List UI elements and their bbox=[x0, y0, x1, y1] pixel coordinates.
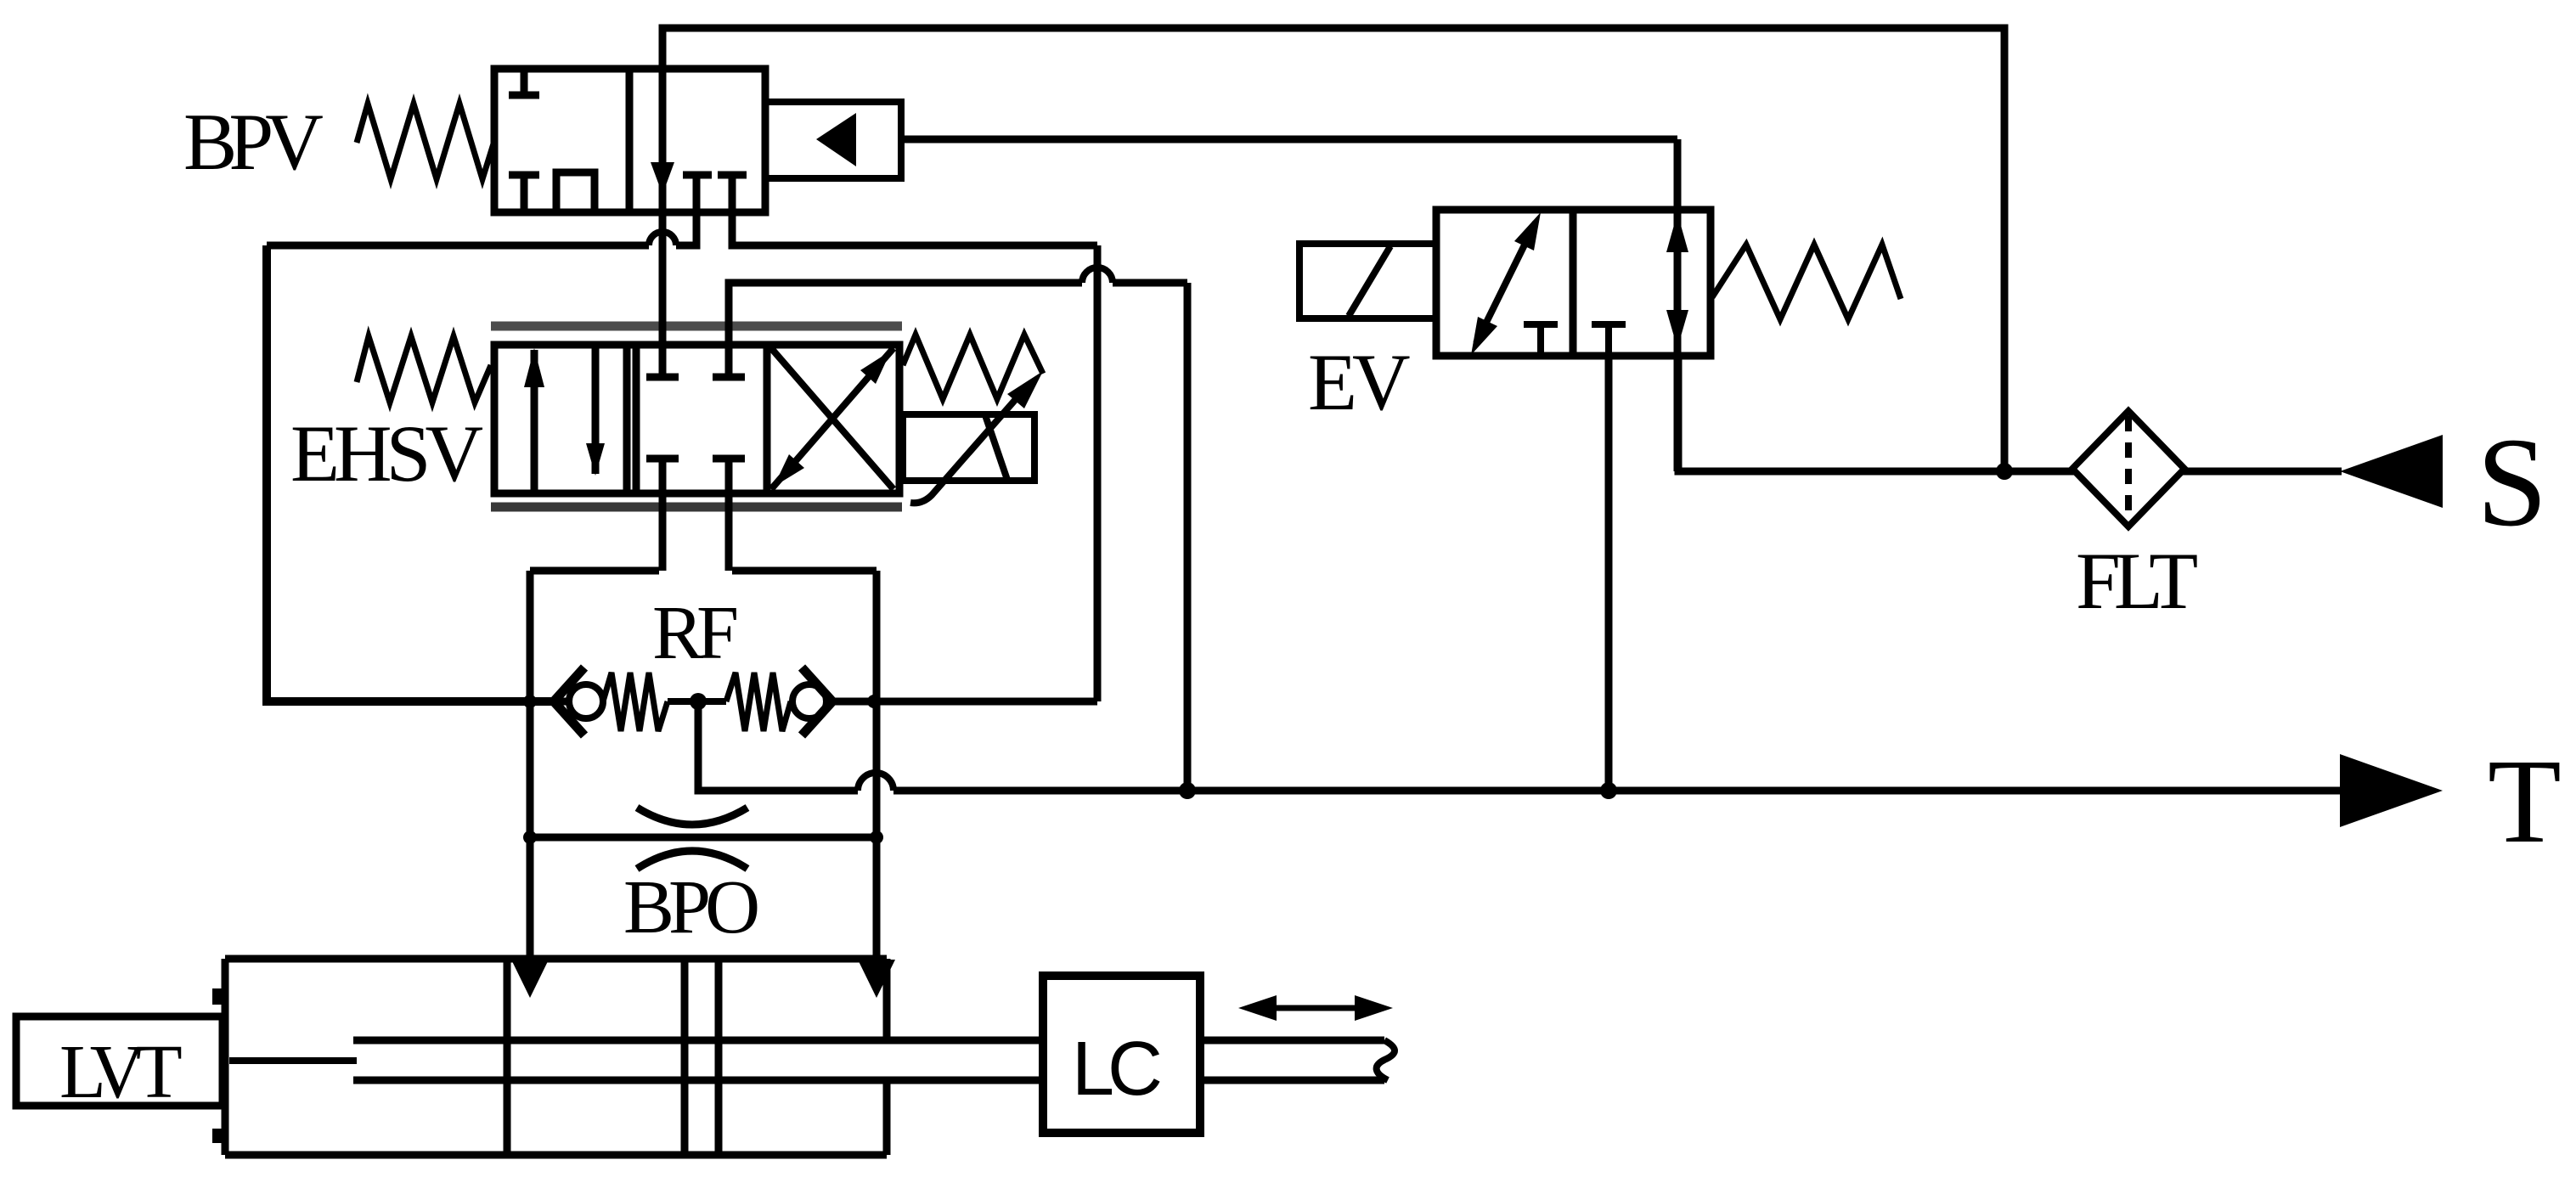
BPV right square flow line with down arrow bbox=[659, 69, 667, 212]
svg-text:BPO: BPO bbox=[623, 865, 758, 949]
EV right square vertical double-arrow heads bbox=[1666, 213, 1688, 252]
wire: EHSV bottom ports into RF block bbox=[662, 459, 729, 571]
svg-text:EHSV: EHSV bbox=[290, 408, 482, 498]
valve EV solenoid box bbox=[1299, 244, 1436, 318]
EHSV top rail bbox=[491, 322, 902, 331]
BPV spring bbox=[357, 104, 494, 179]
node: restrictor-right edge dot bbox=[867, 695, 881, 708]
wire: restrictor line out to right vertical bbox=[832, 698, 1097, 706]
wire: tank line from RF center to T port (hop over RF box edge) bbox=[698, 701, 858, 791]
sensor LVT box bbox=[16, 1016, 223, 1106]
EV left square diagonal double-arrow bbox=[1476, 222, 1536, 343]
port T triangle bbox=[2340, 754, 2443, 827]
node: restrictor-left edge dot bbox=[523, 695, 537, 708]
EHSV bottom rail bbox=[491, 503, 902, 512]
BPV left square blocked port bottom bbox=[509, 175, 539, 212]
RF left check valve bbox=[554, 667, 584, 735]
node: EV-tank junction bbox=[1600, 782, 1617, 799]
EHSV S2 blocked ports top bbox=[646, 345, 679, 377]
RF left restrictor spring bbox=[603, 673, 668, 731]
node: lineB-tank junction bbox=[1179, 782, 1196, 799]
BPV left square notch symbol bbox=[556, 172, 595, 212]
LVT mount tabs bbox=[212, 988, 224, 1005]
EV spring bbox=[1712, 245, 1901, 319]
valve EHSV body bbox=[494, 345, 899, 493]
rod break squiggle bbox=[1377, 1040, 1395, 1080]
RF right restrictor spring bbox=[726, 673, 791, 731]
wire: EV left bottom port down to tank line bbox=[1605, 354, 1613, 791]
BPV pilot triangle bbox=[816, 113, 856, 166]
svg-text:T: T bbox=[2488, 734, 2562, 868]
EHSV adjustment arrow bbox=[910, 399, 1016, 503]
RF restrictor line left segment bbox=[554, 698, 570, 706]
RF/BPO block left edge bbox=[527, 571, 534, 959]
svg-text:BPV: BPV bbox=[183, 97, 323, 187]
actuator internal divider bbox=[504, 959, 511, 1155]
svg-text:LVT: LVT bbox=[59, 1030, 182, 1114]
RF block top edge bbox=[530, 567, 877, 575]
wire: BPV top port up and across to supply junction bbox=[662, 28, 2004, 468]
node: restrictor center junction bbox=[690, 693, 707, 710]
wire: line A right part, BPV T-port to RF right side bbox=[732, 212, 1097, 701]
filter FLT dashed element bbox=[2125, 416, 2132, 521]
motion double arrow bbox=[1264, 1005, 1367, 1011]
EHSV S2 blocked ports bottom bbox=[646, 459, 679, 493]
wire: BPV pilot line to EV top port bbox=[901, 136, 1677, 144]
wire: BPV straight-through port down to EHSV top-left port bbox=[659, 212, 667, 377]
svg-text:FLT: FLT bbox=[2076, 536, 2197, 626]
BPO outlet arrows into actuator bbox=[511, 960, 549, 998]
actuator piston bbox=[685, 959, 719, 1155]
wire: EV right-square line (continuous through valve) bbox=[1674, 139, 1682, 471]
svg-text:S: S bbox=[2477, 412, 2547, 553]
wire: filter to S port bbox=[2183, 468, 2342, 476]
RF lower orifice arc bbox=[637, 808, 747, 825]
RF/BPO divider bbox=[530, 834, 877, 842]
port S triangle bbox=[2340, 435, 2443, 508]
wire: line A left part with hop over BPV-EHSV line bbox=[676, 212, 696, 245]
wire: left rail down to restrictor line bbox=[267, 245, 554, 701]
BPV pilot box bbox=[765, 102, 901, 178]
EHSV left spring bbox=[357, 336, 491, 403]
svg-text:LC: LC bbox=[1072, 1027, 1160, 1112]
EHSV S3 crossed arrows bbox=[771, 348, 893, 489]
svg-text:RF: RF bbox=[652, 591, 736, 675]
EV right square blocked port bbox=[1592, 324, 1626, 356]
wire: line B from EHSV top-right port to tank junction (hop over vertical) bbox=[729, 283, 1082, 377]
svg-text:EV: EV bbox=[1308, 337, 1410, 427]
LVT probe wand bbox=[229, 1057, 357, 1064]
RF/BPO block right edge bbox=[873, 571, 881, 959]
BPO orifice arc bbox=[637, 851, 747, 869]
wire: supply line from EV bottom port to filter bbox=[1678, 354, 2074, 471]
BPV left square blocked port top bbox=[509, 69, 539, 95]
EV left square blocked port bbox=[1524, 324, 1558, 356]
EHSV right spring bbox=[903, 335, 1043, 399]
valve EV body bbox=[1436, 210, 1711, 356]
valve BPV body bbox=[494, 69, 765, 212]
EHSV adjustable box bbox=[903, 414, 1034, 481]
filter FLT diamond bbox=[2072, 411, 2184, 527]
EHSV S1 down-arrow path bbox=[592, 345, 600, 474]
actuator cylinder body bbox=[225, 959, 887, 1155]
load LC box bbox=[1043, 976, 1200, 1133]
BPV right square blocked ports bbox=[683, 175, 712, 212]
RF right check valve bbox=[792, 684, 826, 718]
node: supply junction bbox=[1996, 463, 2013, 480]
EHSV S1 up-arrow path bbox=[531, 350, 538, 493]
actuator rod bbox=[353, 1040, 1043, 1080]
